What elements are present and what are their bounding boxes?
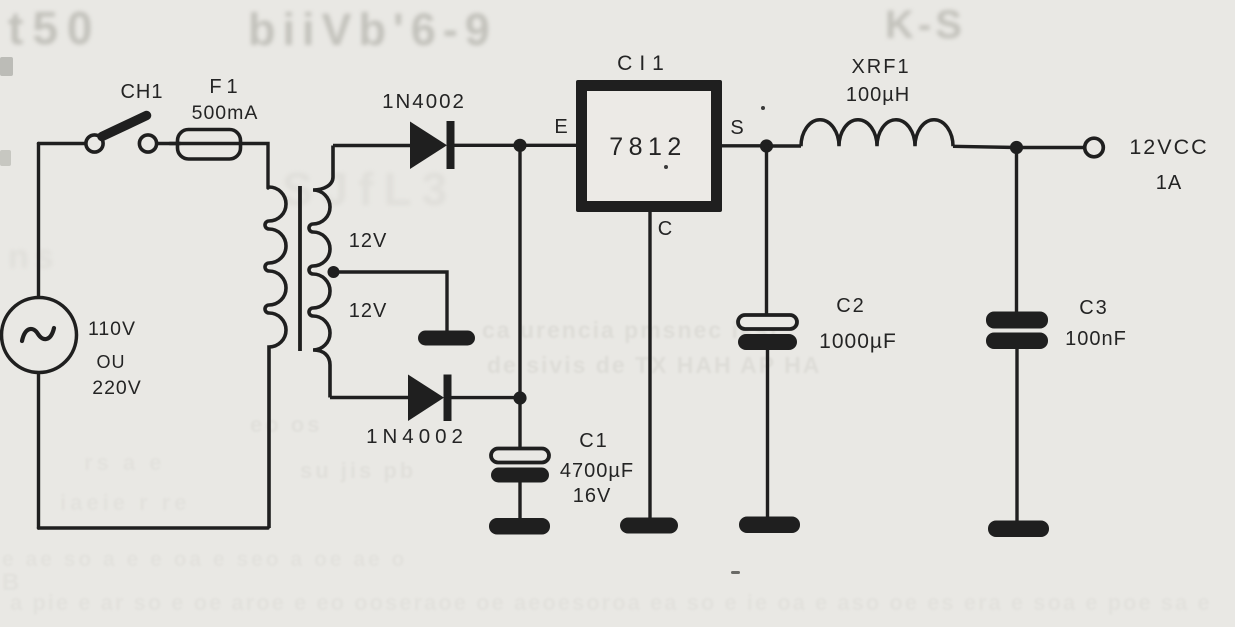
node J2 bbox=[513, 139, 526, 152]
ground bar C1 bbox=[489, 518, 550, 535]
wire D2 to node J3 bbox=[452, 396, 521, 399]
svg-text:eo os: eo os bbox=[250, 412, 322, 437]
diode D2 1N4002 bbox=[408, 375, 452, 422]
capacitor C2 1000uF bbox=[738, 315, 797, 518]
wire switch to fuse bbox=[157, 142, 181, 145]
regulator CI1 7812 bbox=[576, 80, 722, 212]
svg-text:OU: OU bbox=[97, 352, 126, 372]
svg-text:16V: 16V bbox=[573, 485, 612, 507]
svg-text:7812: 7812 bbox=[609, 133, 687, 161]
AC source G1 110V/220V bbox=[2, 298, 77, 373]
svg-text:SJfL3: SJfL3 bbox=[282, 163, 457, 215]
node J4 bbox=[760, 139, 773, 152]
svg-text:biiVb'6-9: biiVb'6-9 bbox=[248, 4, 497, 55]
transformer T1 secondary winding bbox=[309, 146, 333, 398]
ground bar C pin bbox=[620, 518, 678, 534]
wire J4 to coil bbox=[767, 144, 802, 147]
switch CH1 bbox=[86, 116, 157, 153]
svg-text:rs a e: rs a e bbox=[84, 450, 166, 475]
capacitor C1 4700uF bbox=[491, 449, 549, 520]
svg-text:1A: 1A bbox=[1156, 172, 1182, 194]
svg-text:4700µF: 4700µF bbox=[560, 460, 634, 482]
wire J5 down to C3 bbox=[1015, 148, 1018, 313]
svg-text:iaeie r re: iaeie r re bbox=[60, 490, 191, 515]
svg-text:12VCC: 12VCC bbox=[1129, 135, 1208, 159]
svg-text:CH1: CH1 bbox=[120, 81, 163, 103]
svg-text:ca urencia pmsnec iksf: ca urencia pmsnec iksf bbox=[482, 317, 779, 343]
wire top rail to switch bbox=[39, 142, 87, 145]
svg-text:C: C bbox=[658, 218, 672, 240]
wire through fuse to corner and down to primary bbox=[170, 144, 268, 189]
svg-text:F1: F1 bbox=[209, 76, 242, 98]
svg-text:S: S bbox=[730, 117, 743, 139]
svg-text:110V: 110V bbox=[88, 318, 136, 340]
ground bar C2 bbox=[739, 517, 800, 534]
svg-text:de sivis de TX HAH AP HA: de sivis de TX HAH AP HA bbox=[487, 352, 821, 378]
wire J4 down to C2 bbox=[765, 146, 768, 316]
node J1 center tap bbox=[328, 266, 340, 278]
svg-text:K-S: K-S bbox=[885, 3, 966, 47]
svg-text:C1: C1 bbox=[579, 430, 609, 452]
wire left vertical from top rail to AC source bbox=[37, 144, 40, 299]
node J5 bbox=[1010, 141, 1023, 154]
svg-text:E: E bbox=[554, 116, 567, 138]
wire secondary top to diode D1 bbox=[333, 144, 410, 147]
wire bottom rail bbox=[39, 526, 269, 529]
svg-text:1N4002: 1N4002 bbox=[382, 90, 466, 113]
svg-text:1N4002: 1N4002 bbox=[366, 425, 468, 448]
svg-text:XRF1: XRF1 bbox=[851, 56, 910, 78]
wire C pin to ground bbox=[648, 212, 651, 519]
svg-text:ns: ns bbox=[8, 238, 60, 276]
speck dot inside CI1 bbox=[664, 165, 668, 169]
ground bar center tap bbox=[418, 331, 475, 346]
ground bar C3 bbox=[988, 521, 1049, 538]
svg-text:220V: 220V bbox=[92, 377, 142, 399]
wire node J2 down to C1 bbox=[518, 145, 521, 449]
svg-text:100µH: 100µH bbox=[846, 84, 910, 106]
svg-text:12V: 12V bbox=[349, 230, 388, 252]
wire D1 to E pin bbox=[454, 144, 576, 147]
wire coil to node J5 bbox=[953, 146, 1017, 147]
speck dash bottom bbox=[731, 571, 740, 574]
node J3 bbox=[513, 391, 526, 404]
transformer T1 core bbox=[298, 186, 302, 351]
inductor XRF1 bbox=[801, 120, 953, 147]
svg-text:C3: C3 bbox=[1079, 297, 1109, 319]
svg-text:e ae so a e e oa e seo a: e ae so a e e oa e seo a oe ae o bbox=[2, 548, 407, 571]
wire S pin to node J4 bbox=[722, 144, 766, 147]
capacitor C3 100nF bbox=[986, 312, 1048, 522]
svg-text:1000µF: 1000µF bbox=[819, 330, 897, 353]
svg-text:C2: C2 bbox=[836, 295, 866, 317]
wire secondary bottom to diode D2 bbox=[330, 396, 408, 399]
svg-text:100nF: 100nF bbox=[1065, 328, 1127, 350]
wire AC source bottom to ground rail bbox=[37, 373, 40, 528]
svg-text:12V: 12V bbox=[349, 300, 388, 322]
svg-text:su jis pb: su jis pb bbox=[300, 458, 416, 483]
svg-text:a pie e ar so e oe aroe e eo o: a pie e ar so e oe aroe e eo ooseraoe oe… bbox=[10, 590, 1212, 615]
svg-text:B: B bbox=[2, 569, 21, 596]
diode D1 1N4002 bbox=[410, 121, 455, 169]
fuse F1 bbox=[178, 130, 241, 160]
transformer T1 primary winding bbox=[265, 187, 286, 528]
wire center tap to ground bbox=[334, 272, 447, 331]
output terminal 12VCC bbox=[1085, 138, 1104, 157]
svg-text:CI1: CI1 bbox=[617, 52, 671, 75]
wire J5 to output terminal bbox=[1017, 146, 1085, 149]
speck dot above J4 bbox=[761, 106, 765, 110]
ghost edge mark top-left bbox=[0, 57, 13, 76]
svg-text:t50: t50 bbox=[8, 2, 101, 54]
svg-text:500mA: 500mA bbox=[192, 102, 259, 124]
